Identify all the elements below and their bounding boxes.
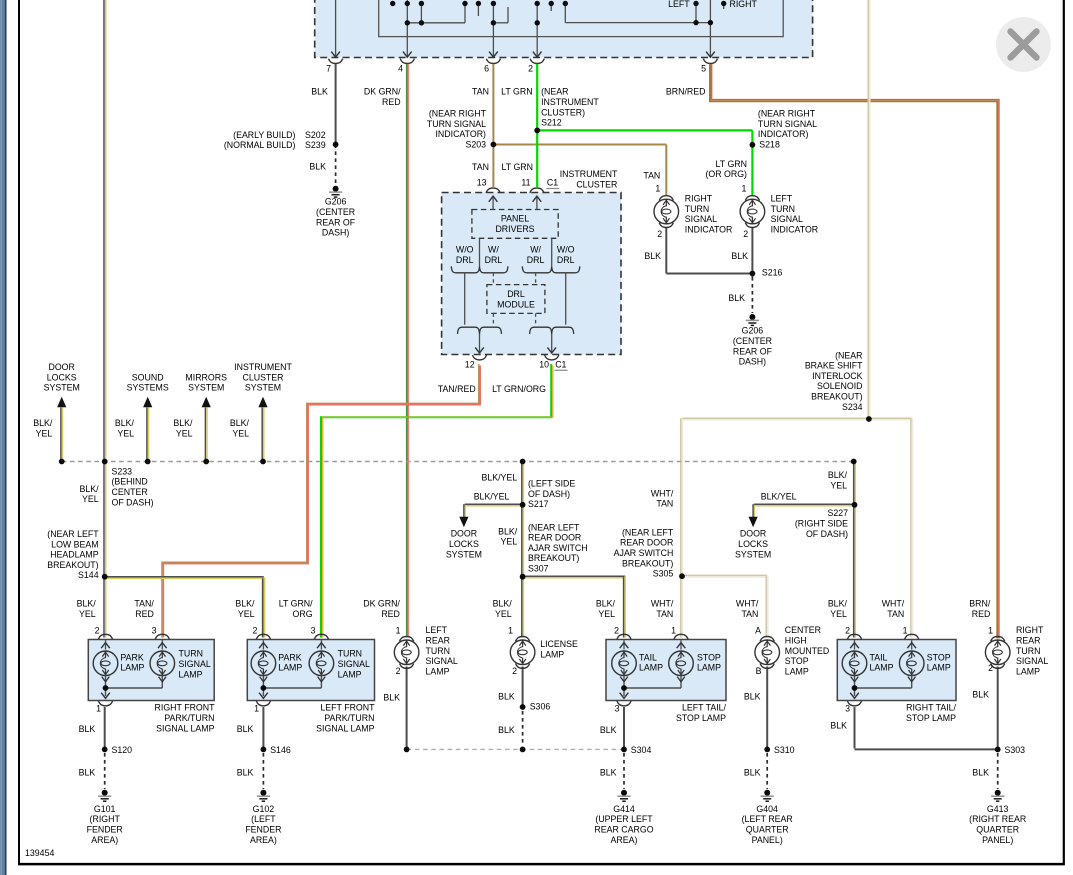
- svg-text:G413: G413: [987, 804, 1009, 814]
- svg-text:(NEAR: (NEAR: [835, 350, 862, 360]
- svg-text:BLK: BLK: [728, 293, 745, 303]
- svg-text:LAMP: LAMP: [179, 669, 203, 679]
- svg-text:TAN: TAN: [656, 609, 673, 619]
- svg-text:S202: S202: [305, 130, 326, 140]
- svg-text:2: 2: [95, 626, 100, 636]
- svg-text:2: 2: [512, 666, 517, 676]
- svg-text:S305: S305: [653, 569, 674, 579]
- svg-text:RIGHT FRONT: RIGHT FRONT: [155, 703, 216, 713]
- svg-text:BLK/: BLK/: [33, 418, 53, 428]
- svg-text:2: 2: [845, 626, 850, 636]
- svg-text:SYSTEM: SYSTEM: [188, 383, 224, 393]
- svg-text:2: 2: [743, 229, 748, 239]
- svg-text:AREA): AREA): [91, 835, 118, 845]
- svg-text:SIGNAL: SIGNAL: [1016, 656, 1048, 666]
- svg-text:FENDER: FENDER: [245, 825, 281, 835]
- svg-text:PARK/TURN: PARK/TURN: [164, 713, 214, 723]
- svg-text:BLK: BLK: [972, 689, 989, 699]
- svg-text:PARK/TURN: PARK/TURN: [324, 713, 374, 723]
- svg-text:(NEAR LEFT: (NEAR LEFT: [528, 522, 580, 532]
- svg-text:S212: S212: [541, 118, 562, 128]
- svg-text:LAMP: LAMP: [785, 666, 809, 676]
- svg-text:BREAKOUT): BREAKOUT): [811, 392, 862, 402]
- svg-text:1: 1: [96, 704, 101, 714]
- svg-text:TAN: TAN: [741, 609, 758, 619]
- svg-text:YEL: YEL: [495, 609, 512, 619]
- svg-text:PANEL): PANEL): [752, 835, 783, 845]
- svg-text:3: 3: [615, 704, 620, 714]
- svg-text:SYSTEM: SYSTEM: [245, 383, 281, 393]
- svg-text:BLK/: BLK/: [596, 599, 616, 609]
- svg-text:SYSTEM: SYSTEM: [44, 383, 80, 393]
- svg-text:BREAKOUT): BREAKOUT): [622, 558, 673, 568]
- svg-text:LAMP: LAMP: [1016, 666, 1040, 676]
- svg-text:(RIGHT: (RIGHT: [90, 814, 121, 824]
- svg-text:(LEFT REAR: (LEFT REAR: [742, 814, 793, 824]
- svg-text:FENDER: FENDER: [87, 825, 123, 835]
- svg-text:(NEAR LEFT: (NEAR LEFT: [622, 527, 674, 537]
- svg-text:SIGNAL: SIGNAL: [179, 659, 211, 669]
- svg-text:AJAR SWITCH: AJAR SWITCH: [528, 543, 588, 553]
- svg-text:REAR OF: REAR OF: [733, 346, 773, 356]
- svg-text:1: 1: [903, 626, 908, 636]
- svg-text:INSTRUMENT: INSTRUMENT: [234, 362, 292, 372]
- svg-text:PARK: PARK: [278, 652, 301, 662]
- svg-text:BLK: BLK: [830, 720, 847, 730]
- svg-text:A: A: [755, 626, 761, 636]
- svg-text:G206: G206: [742, 326, 764, 336]
- svg-text:INDICATOR: INDICATOR: [771, 225, 819, 235]
- svg-text:PANEL): PANEL): [982, 835, 1013, 845]
- svg-text:2: 2: [252, 626, 257, 636]
- svg-text:LAMP: LAMP: [697, 663, 721, 673]
- svg-text:RED: RED: [135, 609, 154, 619]
- svg-text:LT GRN/: LT GRN/: [279, 599, 313, 609]
- svg-text:S218: S218: [759, 140, 780, 150]
- svg-text:BLK: BLK: [79, 768, 96, 778]
- svg-text:INDICATOR): INDICATOR): [435, 129, 486, 139]
- svg-text:YEL: YEL: [232, 428, 249, 438]
- svg-text:PANEL: PANEL: [501, 214, 529, 224]
- svg-text:2: 2: [988, 663, 993, 673]
- svg-text:BLK/YEL: BLK/YEL: [761, 492, 797, 502]
- svg-text:(NEAR RIGHT: (NEAR RIGHT: [429, 109, 487, 119]
- svg-text:(BEHIND: (BEHIND: [112, 477, 148, 487]
- svg-text:STOP LAMP: STOP LAMP: [676, 713, 726, 723]
- svg-text:BLK: BLK: [498, 692, 515, 702]
- svg-text:11: 11: [521, 177, 530, 187]
- svg-text:SIGNAL: SIGNAL: [771, 214, 803, 224]
- svg-text:LAMP: LAMP: [927, 663, 951, 673]
- svg-text:TURN: TURN: [338, 649, 362, 659]
- svg-text:DOOR: DOOR: [740, 529, 766, 539]
- svg-text:G101: G101: [94, 804, 116, 814]
- svg-text:7: 7: [326, 64, 331, 74]
- svg-text:S120: S120: [112, 745, 133, 755]
- svg-text:YEL: YEL: [82, 494, 99, 504]
- svg-text:DRL: DRL: [557, 255, 575, 265]
- svg-text:MIRRORS: MIRRORS: [185, 372, 227, 382]
- svg-text:LOCKS: LOCKS: [449, 539, 479, 549]
- svg-text:QUARTER: QUARTER: [746, 825, 789, 835]
- svg-text:LAMP: LAMP: [540, 649, 564, 659]
- svg-text:(NEAR RIGHT: (NEAR RIGHT: [758, 109, 816, 119]
- svg-text:SIGNAL LAMP: SIGNAL LAMP: [156, 723, 214, 733]
- svg-text:SYSTEM: SYSTEM: [446, 549, 482, 559]
- svg-text:HEADLAMP: HEADLAMP: [50, 550, 99, 560]
- svg-text:RIGHT: RIGHT: [685, 194, 713, 204]
- svg-text:INDICATOR: INDICATOR: [685, 225, 733, 235]
- svg-text:(NEAR: (NEAR: [541, 87, 568, 97]
- svg-text:STOP: STOP: [697, 652, 721, 662]
- svg-text:S303: S303: [1005, 745, 1026, 755]
- svg-text:SYSTEM: SYSTEM: [735, 549, 771, 559]
- svg-text:DRL: DRL: [527, 255, 545, 265]
- svg-text:HIGH: HIGH: [785, 636, 807, 646]
- svg-text:LEFT FRONT: LEFT FRONT: [320, 703, 375, 713]
- svg-text:6: 6: [484, 64, 489, 74]
- svg-text:BRN/: BRN/: [969, 599, 991, 609]
- svg-text:BLK: BLK: [311, 87, 328, 97]
- svg-text:BLK/: BLK/: [828, 599, 848, 609]
- svg-text:BLK/YEL: BLK/YEL: [474, 492, 510, 502]
- svg-text:YEL: YEL: [176, 428, 193, 438]
- svg-text:BLK/: BLK/: [115, 418, 135, 428]
- svg-text:YEL: YEL: [830, 480, 847, 490]
- svg-text:(LEFT: (LEFT: [251, 814, 276, 824]
- svg-text:ORG: ORG: [293, 609, 313, 619]
- svg-text:REAR CARGO: REAR CARGO: [594, 825, 653, 835]
- svg-text:1: 1: [671, 626, 676, 636]
- svg-text:(RIGHT SIDE: (RIGHT SIDE: [795, 519, 848, 529]
- svg-text:YEL: YEL: [238, 609, 255, 619]
- svg-text:LOW BEAM: LOW BEAM: [51, 539, 98, 549]
- svg-text:S217: S217: [528, 499, 549, 509]
- svg-text:S146: S146: [270, 745, 291, 755]
- svg-text:TAN/RED: TAN/RED: [438, 384, 476, 394]
- svg-text:BLK: BLK: [600, 768, 617, 778]
- svg-text:BLK/: BLK/: [80, 484, 100, 494]
- svg-text:REAR DOOR: REAR DOOR: [620, 538, 673, 548]
- svg-text:REAR OF: REAR OF: [316, 217, 356, 227]
- svg-text:LAMP: LAMP: [426, 666, 450, 676]
- svg-text:BREAKOUT): BREAKOUT): [47, 560, 98, 570]
- svg-text:SOUND: SOUND: [132, 372, 164, 382]
- svg-text:DOOR: DOOR: [451, 529, 477, 539]
- svg-text:TAIL: TAIL: [639, 652, 657, 662]
- svg-text:SIGNAL LAMP: SIGNAL LAMP: [316, 723, 374, 733]
- svg-text:LAMP: LAMP: [639, 663, 663, 673]
- svg-text:BLK: BLK: [237, 768, 254, 778]
- svg-text:BLK: BLK: [731, 251, 748, 261]
- svg-text:1: 1: [254, 704, 259, 714]
- svg-text:YEL: YEL: [598, 609, 615, 619]
- svg-text:DOOR: DOOR: [48, 362, 74, 372]
- svg-text:1: 1: [741, 184, 746, 194]
- svg-text:10: 10: [539, 359, 549, 369]
- svg-text:LAMP: LAMP: [870, 663, 894, 673]
- svg-text:INSTRUMENT: INSTRUMENT: [541, 97, 599, 107]
- svg-text:YEL: YEL: [36, 428, 53, 438]
- svg-text:BLK: BLK: [383, 693, 400, 703]
- svg-text:BLK/: BLK/: [498, 526, 518, 536]
- svg-text:TAN: TAN: [643, 170, 660, 180]
- svg-text:AREA): AREA): [250, 835, 277, 845]
- svg-text:LEFT: LEFT: [426, 625, 448, 635]
- svg-text:DK GRN/: DK GRN/: [363, 599, 400, 609]
- svg-text:BLK: BLK: [744, 692, 761, 702]
- svg-text:BLK/: BLK/: [235, 599, 255, 609]
- svg-text:BLK: BLK: [644, 251, 661, 261]
- svg-text:DRL: DRL: [456, 255, 474, 265]
- svg-text:S216: S216: [762, 268, 783, 278]
- svg-text:SIGNAL: SIGNAL: [685, 214, 717, 224]
- svg-text:DASH): DASH): [322, 228, 349, 238]
- svg-text:WHT/: WHT/: [882, 599, 905, 609]
- svg-text:AREA): AREA): [611, 835, 638, 845]
- svg-text:3: 3: [152, 626, 157, 636]
- svg-text:4: 4: [398, 64, 403, 74]
- svg-text:DRL: DRL: [485, 255, 503, 265]
- svg-text:LT GRN: LT GRN: [501, 87, 532, 97]
- svg-text:(CENTER: (CENTER: [316, 207, 355, 217]
- svg-text:5: 5: [701, 64, 706, 74]
- svg-text:LEFT: LEFT: [668, 0, 690, 9]
- svg-text:LT GRN: LT GRN: [716, 159, 747, 169]
- svg-text:13: 13: [477, 177, 487, 187]
- svg-text:MODULE: MODULE: [497, 300, 535, 310]
- svg-text:REAR: REAR: [426, 636, 450, 646]
- svg-text:TURN: TURN: [1016, 646, 1040, 656]
- svg-text:BRN/RED: BRN/RED: [666, 87, 706, 97]
- svg-text:LOCKS: LOCKS: [738, 539, 768, 549]
- svg-text:S233: S233: [112, 466, 133, 476]
- svg-text:3: 3: [311, 626, 316, 636]
- svg-text:2: 2: [614, 626, 619, 636]
- svg-text:WHT/: WHT/: [651, 488, 674, 498]
- svg-text:MOUNTED: MOUNTED: [785, 646, 829, 656]
- svg-text:S239: S239: [305, 140, 326, 150]
- svg-text:BLK/: BLK/: [493, 599, 513, 609]
- svg-text:SYSTEMS: SYSTEMS: [127, 383, 169, 393]
- svg-text:SIGNAL: SIGNAL: [426, 656, 458, 666]
- svg-text:LICENSE: LICENSE: [540, 639, 578, 649]
- svg-text:STOP LAMP: STOP LAMP: [906, 713, 956, 723]
- svg-text:RED: RED: [382, 97, 401, 107]
- svg-text:1: 1: [988, 626, 993, 636]
- svg-text:BREAKOUT): BREAKOUT): [528, 553, 579, 563]
- svg-text:G404: G404: [756, 804, 778, 814]
- svg-text:LAMP: LAMP: [278, 663, 302, 673]
- svg-text:S234: S234: [842, 402, 863, 412]
- svg-text:TAIL: TAIL: [870, 652, 888, 662]
- svg-text:BLK/YEL: BLK/YEL: [481, 472, 517, 482]
- svg-text:OF DASH): OF DASH): [112, 497, 154, 507]
- svg-text:LAMP: LAMP: [338, 669, 362, 679]
- svg-text:INSTRUMENT: INSTRUMENT: [560, 169, 618, 179]
- svg-text:WHT/: WHT/: [651, 599, 674, 609]
- svg-text:INTERLOCK: INTERLOCK: [812, 371, 862, 381]
- svg-text:(CENTER: (CENTER: [733, 336, 772, 346]
- svg-text:LT GRN: LT GRN: [502, 162, 533, 172]
- svg-text:TURN SIGNAL: TURN SIGNAL: [427, 119, 486, 129]
- svg-text:BLK: BLK: [600, 725, 617, 735]
- svg-text:S227: S227: [827, 508, 848, 518]
- svg-text:OF DASH): OF DASH): [806, 529, 848, 539]
- svg-text:TAN/: TAN/: [134, 599, 154, 609]
- svg-text:3: 3: [845, 704, 850, 714]
- svg-text:DK GRN/: DK GRN/: [364, 87, 401, 97]
- svg-text:DRL: DRL: [507, 289, 525, 299]
- svg-text:REAR DOOR: REAR DOOR: [528, 533, 581, 543]
- svg-text:OF DASH): OF DASH): [528, 489, 570, 499]
- svg-text:CLUSTER: CLUSTER: [576, 180, 617, 190]
- svg-text:BLK/: BLK/: [77, 599, 97, 609]
- svg-text:2: 2: [528, 64, 533, 74]
- svg-text:W/: W/: [530, 245, 541, 255]
- svg-text:LEFT TAIL/: LEFT TAIL/: [682, 703, 727, 713]
- svg-text:BLK/: BLK/: [230, 418, 250, 428]
- svg-text:1: 1: [396, 626, 401, 636]
- svg-text:REAR: REAR: [1016, 636, 1040, 646]
- svg-text:YEL: YEL: [830, 609, 847, 619]
- svg-text:BLK: BLK: [744, 768, 761, 778]
- svg-text:BLK: BLK: [309, 161, 326, 171]
- svg-text:W/: W/: [488, 245, 499, 255]
- svg-text:W/O: W/O: [557, 245, 575, 255]
- svg-text:G206: G206: [325, 197, 347, 207]
- svg-text:TURN SIGNAL: TURN SIGNAL: [758, 119, 817, 129]
- svg-text:QUARTER: QUARTER: [976, 825, 1019, 835]
- svg-text:WHT/: WHT/: [736, 599, 759, 609]
- svg-text:SIGNAL: SIGNAL: [338, 659, 370, 669]
- svg-text:S144: S144: [78, 570, 99, 580]
- svg-text:RED: RED: [381, 609, 400, 619]
- svg-text:S203: S203: [465, 140, 486, 150]
- svg-text:CENTER: CENTER: [785, 625, 821, 635]
- svg-text:(RIGHT REAR: (RIGHT REAR: [969, 814, 1026, 824]
- svg-text:(NEAR LEFT: (NEAR LEFT: [47, 529, 99, 539]
- svg-text:(OR ORG): (OR ORG): [705, 169, 747, 179]
- svg-text:BLK/: BLK/: [828, 470, 848, 480]
- svg-text:SOLENOID: SOLENOID: [817, 381, 862, 391]
- svg-text:PARK: PARK: [120, 652, 143, 662]
- svg-text:(EARLY BUILD): (EARLY BUILD): [233, 130, 295, 140]
- svg-text:RED: RED: [972, 609, 991, 619]
- svg-text:BLK/: BLK/: [173, 418, 193, 428]
- svg-text:1: 1: [655, 184, 660, 194]
- svg-text:TURN: TURN: [426, 646, 450, 656]
- svg-text:AJAR SWITCH: AJAR SWITCH: [614, 548, 674, 558]
- svg-text:YEL: YEL: [117, 428, 134, 438]
- svg-text:BRAKE SHIFT: BRAKE SHIFT: [805, 361, 863, 371]
- svg-text:STOP: STOP: [927, 652, 951, 662]
- svg-text:TAN: TAN: [472, 87, 489, 97]
- svg-text:(UPPER LEFT: (UPPER LEFT: [595, 814, 653, 824]
- svg-text:S310: S310: [774, 745, 795, 755]
- svg-text:BLK: BLK: [498, 725, 515, 735]
- svg-text:TAN: TAN: [887, 609, 904, 619]
- svg-text:LOCKS: LOCKS: [47, 372, 77, 382]
- svg-text:W/O: W/O: [456, 245, 474, 255]
- svg-text:TURN: TURN: [685, 204, 709, 214]
- svg-text:2: 2: [396, 666, 401, 676]
- svg-text:B: B: [756, 666, 762, 676]
- svg-text:INDICATOR): INDICATOR): [758, 129, 809, 139]
- svg-text:12: 12: [465, 359, 475, 369]
- svg-text:(LEFT SIDE: (LEFT SIDE: [528, 479, 575, 489]
- svg-text:139454: 139454: [25, 848, 54, 858]
- svg-text:1: 1: [508, 626, 513, 636]
- svg-text:S307: S307: [528, 564, 549, 574]
- svg-text:CLUSTER): CLUSTER): [541, 107, 585, 117]
- svg-text:2: 2: [657, 229, 662, 239]
- svg-text:YEL: YEL: [79, 609, 96, 619]
- svg-text:CLUSTER: CLUSTER: [242, 372, 283, 382]
- svg-text:RIGHT: RIGHT: [1016, 625, 1044, 635]
- svg-text:LT GRN/ORG: LT GRN/ORG: [492, 384, 546, 394]
- svg-text:TAN: TAN: [656, 499, 673, 509]
- svg-text:C1: C1: [547, 177, 558, 187]
- svg-text:RIGHT TAIL/: RIGHT TAIL/: [906, 703, 956, 713]
- svg-text:C1: C1: [555, 359, 566, 369]
- svg-text:LEFT: LEFT: [771, 194, 793, 204]
- svg-text:G414: G414: [613, 804, 635, 814]
- svg-text:LAMP: LAMP: [120, 663, 144, 673]
- svg-text:CENTER: CENTER: [112, 487, 148, 497]
- svg-text:G102: G102: [253, 804, 275, 814]
- svg-text:BLK: BLK: [972, 768, 989, 778]
- svg-text:S304: S304: [631, 745, 652, 755]
- svg-text:DASH): DASH): [739, 357, 766, 367]
- svg-text:S306: S306: [530, 702, 551, 712]
- svg-text:RIGHT: RIGHT: [730, 0, 758, 9]
- svg-text:BLK: BLK: [79, 724, 96, 734]
- svg-text:DRIVERS: DRIVERS: [495, 224, 534, 234]
- svg-text:BLK: BLK: [237, 724, 254, 734]
- svg-text:YEL: YEL: [501, 537, 518, 547]
- svg-text:TAN: TAN: [472, 162, 489, 172]
- svg-text:TURN: TURN: [771, 204, 795, 214]
- svg-text:TURN: TURN: [179, 649, 203, 659]
- svg-text:STOP: STOP: [785, 656, 809, 666]
- svg-text:(NORMAL BUILD): (NORMAL BUILD): [224, 140, 296, 150]
